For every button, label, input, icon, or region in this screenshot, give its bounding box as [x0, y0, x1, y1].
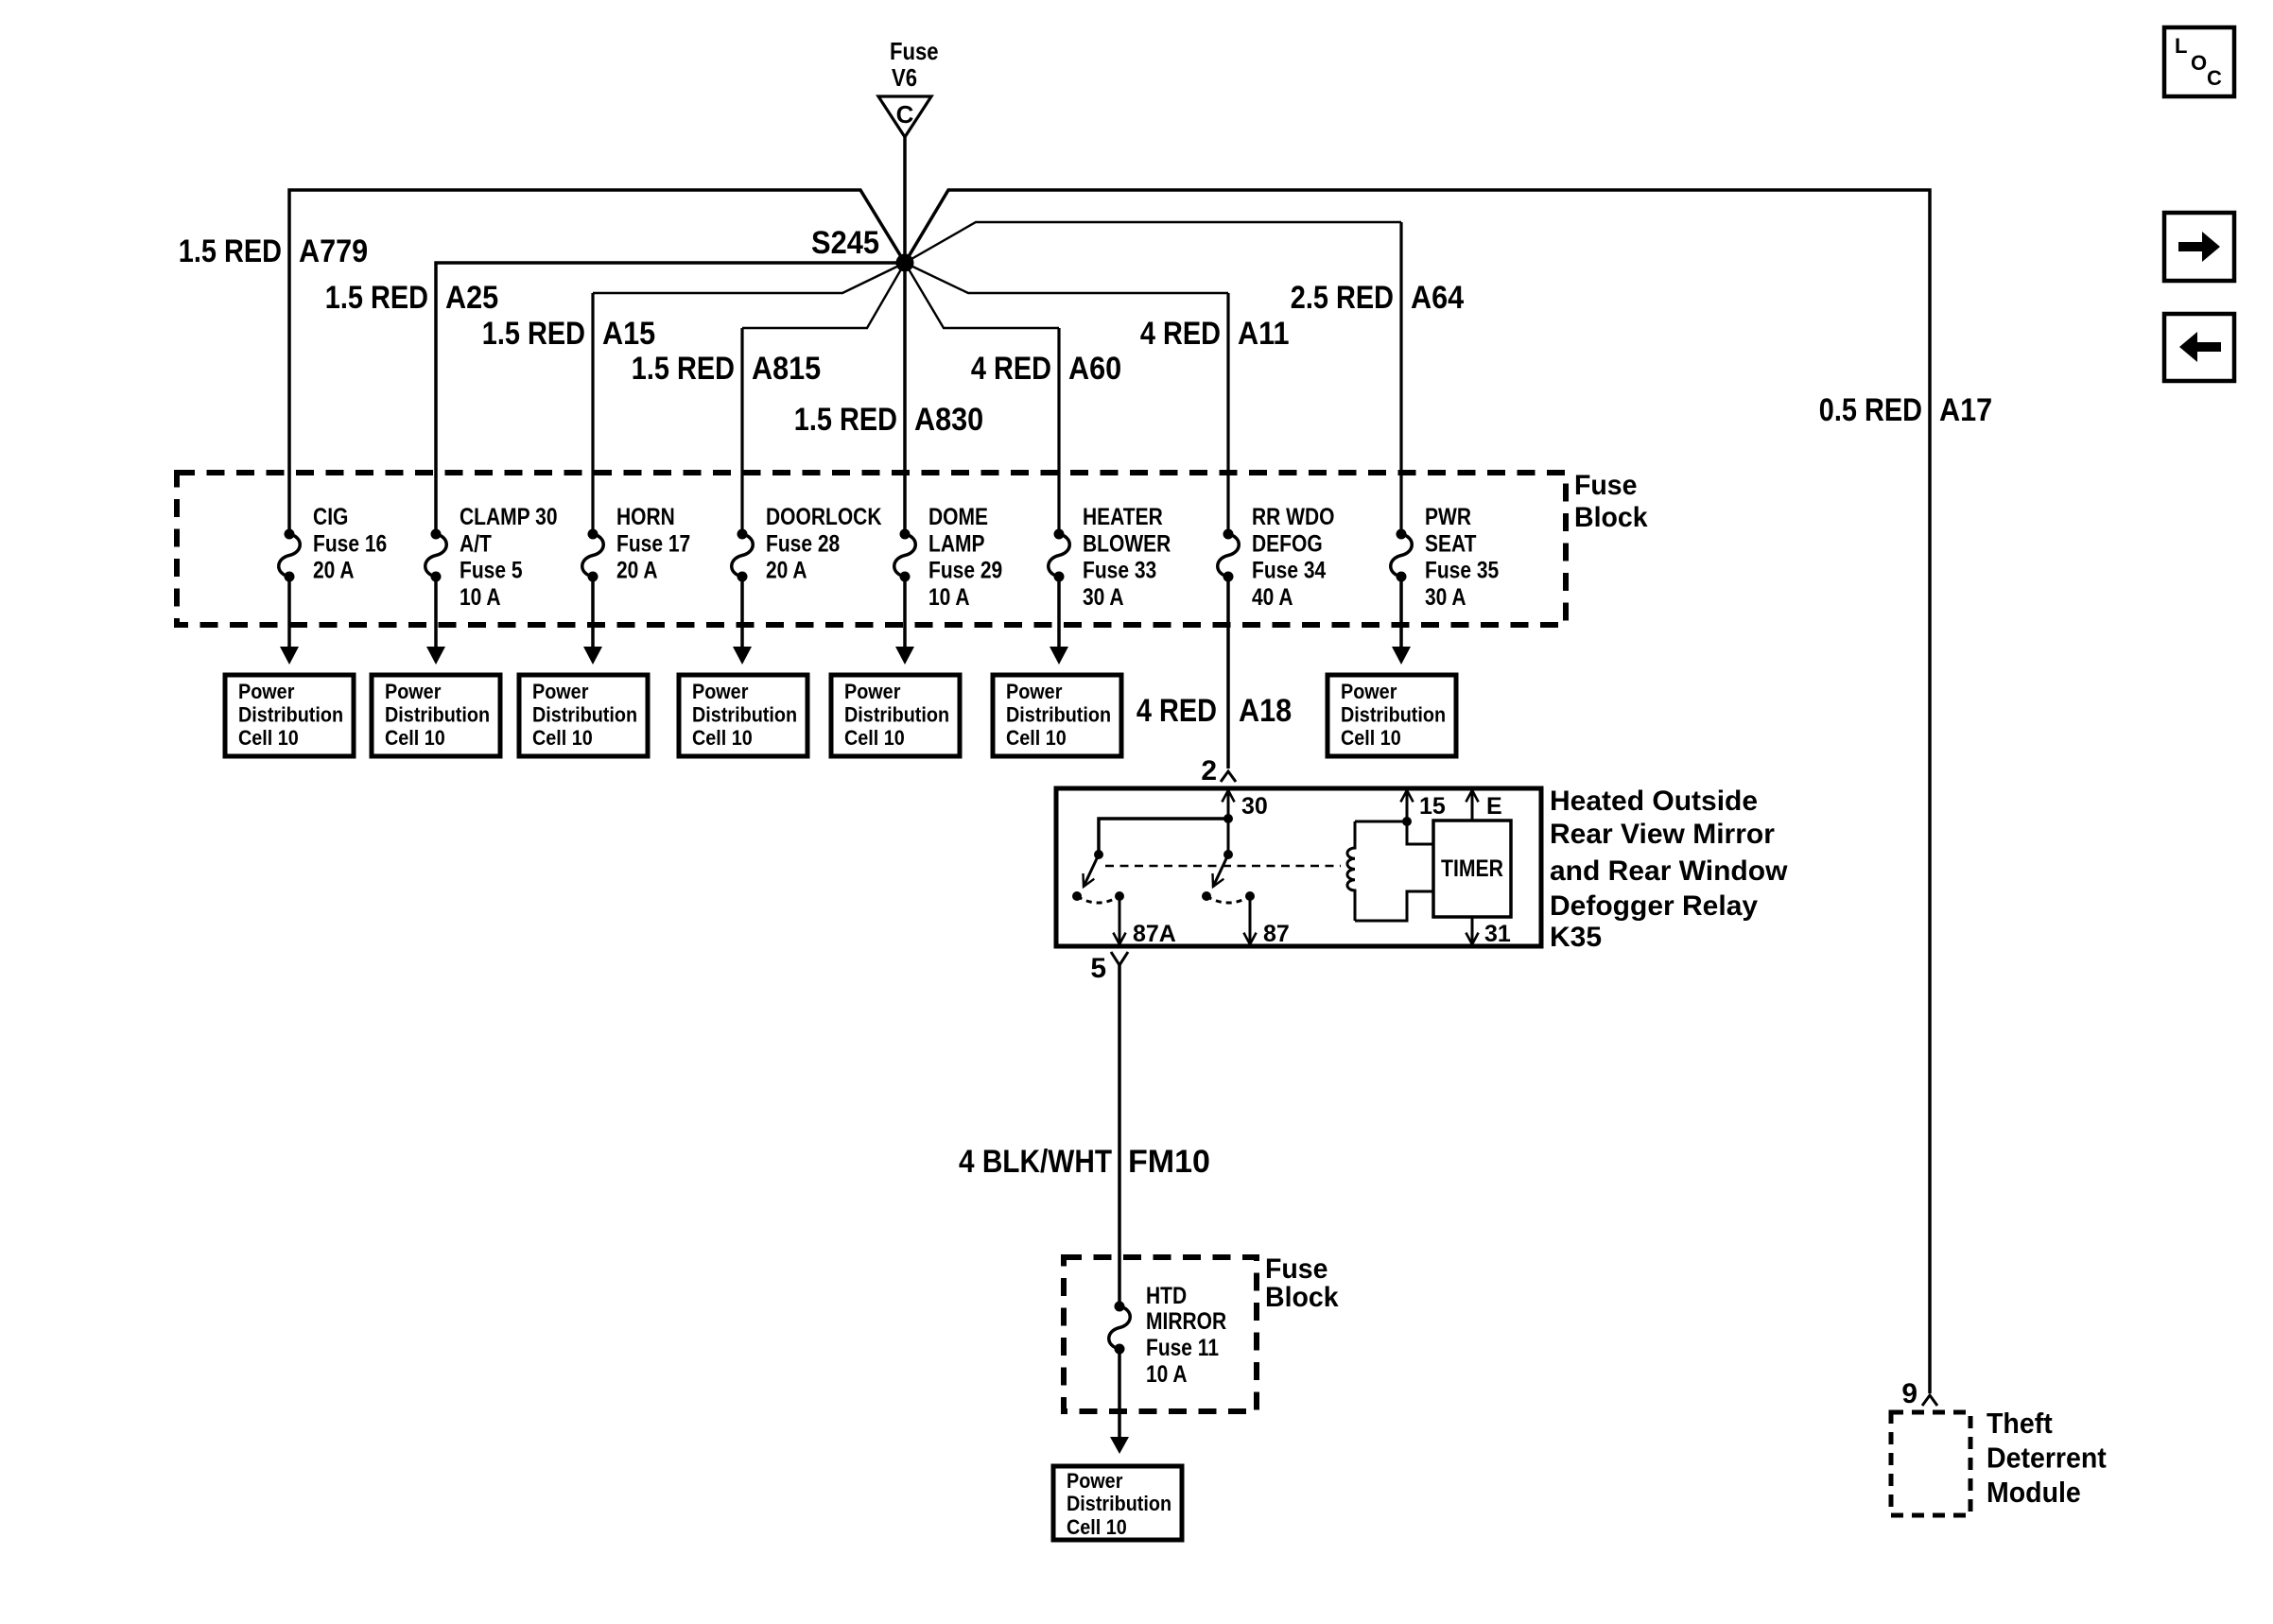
svg-text:CIG: CIG [313, 504, 348, 530]
fuse HTD MIRROR Fuse 11 10 A [1109, 1283, 1226, 1388]
power feed label Fuse V6 [890, 37, 939, 92]
svg-text:Power: Power [1341, 680, 1397, 703]
connector C (triangle to Fuse V6) [878, 96, 931, 137]
wire 1.5 RED A815 (S245 to DOORLOCK fuse) [742, 263, 905, 534]
svg-text:CLAMP 30: CLAMP 30 [460, 504, 558, 530]
wire 2.5 RED A64 (S245 to PWR SEAT fuse) [905, 222, 1401, 534]
relay left switch contacts and dashed throw [1072, 891, 1124, 903]
svg-text:Power: Power [532, 680, 589, 703]
relay coil [1347, 821, 1407, 921]
svg-text:Fuse: Fuse [1265, 1253, 1328, 1285]
relay TIMER box [1433, 821, 1511, 917]
Power Distribution Cell 10 box (column x=461) [372, 675, 500, 756]
svg-text:A64: A64 [1411, 280, 1464, 316]
fuse DOORLOCK Fuse 28 20 A [732, 504, 882, 584]
wire fuse column x=785 to Power Distribution arrow [733, 577, 752, 665]
svg-text:Module: Module [1987, 1476, 2081, 1509]
svg-text:Power: Power [692, 680, 749, 703]
svg-text:E: E [1486, 793, 1502, 820]
splice S245 node [896, 254, 914, 272]
previous page arrow icon [2164, 314, 2234, 381]
svg-text:1.5 RED: 1.5 RED [179, 233, 282, 269]
svg-text:Block: Block [1574, 502, 1648, 533]
LOC page icon [2164, 27, 2234, 96]
svg-text:87: 87 [1263, 921, 1290, 947]
svg-text:A11: A11 [1238, 316, 1290, 352]
svg-text:Distribution: Distribution [1006, 703, 1111, 727]
svg-text:Fuse 35: Fuse 35 [1425, 558, 1499, 584]
relay timer to coil bottom wire [1355, 891, 1433, 921]
svg-text:2: 2 [1201, 755, 1217, 786]
svg-text:30 A: 30 A [1083, 584, 1124, 611]
svg-text:SEAT: SEAT [1425, 530, 1476, 557]
svg-text:MIRROR: MIRROR [1146, 1308, 1226, 1335]
relay pin 87 arrow and wire [1243, 896, 1289, 947]
svg-text:Cell 10: Cell 10 [532, 726, 593, 750]
wire label 1.5 RED A25 [325, 280, 498, 316]
svg-text:20 A: 20 A [766, 558, 807, 584]
Power Distribution Cell 10 box (column x=627) [519, 675, 648, 756]
relay middle switch contacts and dashed throw [1202, 891, 1255, 903]
wire 1.5 RED A779 (S245 to CIG fuse) [289, 190, 905, 534]
fuse PWR SEAT Fuse 35 30 A [1391, 504, 1500, 611]
svg-text:15: 15 [1419, 793, 1446, 820]
wire fuse column x=306 to Power Distribution arrow [280, 577, 299, 665]
svg-text:31: 31 [1484, 921, 1511, 947]
wire label 2.5 RED A64 [1291, 280, 1464, 316]
fuse block 2 (dashed boundary) [1064, 1257, 1257, 1411]
svg-text:Cell 10: Cell 10 [385, 726, 445, 750]
fuse HEATER BLOWER Fuse 33 30 A [1049, 504, 1171, 611]
svg-text:A18: A18 [1239, 693, 1292, 729]
Theft Deterrent Module label [1987, 1407, 2107, 1509]
svg-text:Distribution: Distribution [385, 703, 490, 727]
svg-text:Distribution: Distribution [238, 703, 343, 727]
svg-text:10 A: 10 A [928, 584, 970, 611]
relay coil junction node [1402, 817, 1412, 826]
relay K35 name label [1550, 786, 1788, 953]
svg-text:4 RED: 4 RED [1140, 316, 1221, 352]
fuse block (dashed boundary) [177, 473, 1566, 625]
svg-text:9: 9 [1901, 1378, 1917, 1409]
svg-text:Fuse 34: Fuse 34 [1252, 558, 1326, 584]
svg-text:Cell 10: Cell 10 [844, 726, 905, 750]
svg-text:DOORLOCK: DOORLOCK [766, 504, 882, 530]
svg-text:Fuse: Fuse [890, 37, 939, 65]
svg-text:Defogger Relay: Defogger Relay [1550, 890, 1758, 922]
svg-text:Power: Power [385, 680, 442, 703]
wire label 4 RED A60 [971, 351, 1121, 387]
svg-text:Cell 10: Cell 10 [238, 726, 299, 750]
Power Distribution Cell 10 box (column x=1482) [1327, 675, 1456, 756]
svg-text:1.5 RED: 1.5 RED [794, 402, 897, 438]
relay pin 30 arrow and wire [1222, 790, 1267, 855]
svg-text:DEFOG: DEFOG [1252, 530, 1323, 557]
svg-text:20 A: 20 A [616, 558, 658, 584]
wire fuse column x=627 to Power Distribution arrow [583, 577, 602, 665]
wire fuse column x=461 to Power Distribution arrow [426, 577, 445, 665]
svg-text:PWR: PWR [1425, 504, 1471, 530]
svg-text:FM10: FM10 [1128, 1144, 1210, 1180]
svg-text:Power: Power [1067, 1469, 1123, 1493]
svg-text:2.5 RED: 2.5 RED [1291, 280, 1394, 316]
svg-text:Distribution: Distribution [1067, 1492, 1171, 1515]
wire label 4 BLK/WHT FM10 [959, 1144, 1210, 1180]
svg-text:20 A: 20 A [313, 558, 355, 584]
svg-text:A25: A25 [445, 280, 498, 316]
relay pin 31 arrow and wire [1466, 917, 1511, 947]
svg-text:Fuse 11: Fuse 11 [1146, 1335, 1219, 1361]
wire 1.5 RED A15 (S245 to HORN fuse) [593, 263, 905, 534]
wire label 1.5 RED A830 [794, 402, 983, 438]
connector pin 9 (theft deterrent module) [1901, 1378, 1937, 1409]
svg-text:RR WDO: RR WDO [1252, 504, 1335, 530]
fuse RR WDO DEFOG Fuse 34 40 A [1218, 504, 1335, 611]
Power Distribution Cell 10 box (column x=785) [679, 675, 807, 756]
svg-text:L: L [2175, 34, 2187, 58]
svg-text:Heated Outside: Heated Outside [1550, 786, 1758, 817]
wire from connector C to splice S245 [903, 137, 907, 263]
fuse block 2 label [1265, 1253, 1339, 1313]
svg-text:A17: A17 [1939, 392, 1992, 428]
svg-text:C: C [2207, 66, 2222, 90]
wire 4 RED A11 (S245 to RR WDO DEFOG fuse) [905, 263, 1228, 534]
svg-text:A15: A15 [602, 316, 655, 352]
svg-text:5: 5 [1090, 953, 1106, 984]
fuse DOME LAMP Fuse 29 10 A [894, 504, 1002, 611]
svg-text:Fuse: Fuse [1574, 470, 1638, 501]
svg-text:Fuse 16: Fuse 16 [313, 530, 387, 557]
wire label 4 RED A11 [1140, 316, 1290, 352]
svg-text:HORN: HORN [616, 504, 675, 530]
svg-text:87A: 87A [1133, 921, 1176, 947]
svg-text:Cell 10: Cell 10 [692, 726, 753, 750]
wire 4 RED A18 (RR WDO fuse to relay pin 30) [1226, 577, 1230, 769]
wire fuse column x=1120 to Power Distribution arrow [1050, 577, 1068, 665]
svg-text:Power: Power [844, 680, 901, 703]
next page arrow icon [2164, 213, 2234, 281]
relay pin E arrow and wire [1466, 790, 1501, 821]
svg-text:TIMER: TIMER [1441, 855, 1503, 882]
svg-text:Rear View Mirror: Rear View Mirror [1550, 819, 1775, 850]
svg-text:0.5 RED: 0.5 RED [1819, 392, 1922, 428]
relay pin 87A arrow and wire [1113, 896, 1175, 947]
svg-text:A/T: A/T [460, 530, 492, 557]
svg-text:10 A: 10 A [460, 584, 501, 611]
wire label 1.5 RED A779 [179, 233, 368, 269]
Power Distribution Cell 10 box (column x=1120) [993, 675, 1121, 756]
svg-text:1.5 RED: 1.5 RED [632, 351, 735, 387]
svg-text:Fuse 33: Fuse 33 [1083, 558, 1156, 584]
svg-text:Distribution: Distribution [1341, 703, 1446, 727]
svg-text:BLOWER: BLOWER [1083, 530, 1171, 557]
wire 4 BLK/WHT FM10 (relay 87A to fuse block) [1118, 963, 1121, 1306]
wire label 1.5 RED A815 [632, 351, 821, 387]
wire label 4 RED A18 [1136, 693, 1292, 729]
svg-text:Distribution: Distribution [844, 703, 949, 727]
svg-text:A60: A60 [1068, 351, 1121, 387]
svg-text:Power: Power [238, 680, 295, 703]
svg-text:A779: A779 [299, 233, 368, 269]
wire label 1.5 RED A15 [482, 316, 655, 352]
svg-text:A815: A815 [752, 351, 821, 387]
svg-text:Cell 10: Cell 10 [1341, 726, 1401, 750]
svg-text:4 RED: 4 RED [1136, 693, 1217, 729]
svg-text:Fuse 29: Fuse 29 [928, 558, 1002, 584]
svg-text:HTD: HTD [1146, 1283, 1187, 1309]
connector pin 5 (out of relay) [1090, 952, 1128, 984]
svg-text:Distribution: Distribution [692, 703, 797, 727]
wire 0.5 RED A17 (S245 to theft deterrent module) [905, 190, 1930, 1393]
svg-text:Distribution: Distribution [532, 703, 637, 727]
svg-text:Theft: Theft [1987, 1407, 2053, 1440]
svg-text:LAMP: LAMP [928, 530, 985, 557]
svg-text:Cell 10: Cell 10 [1006, 726, 1067, 750]
connector pin 2 (into relay) [1201, 755, 1236, 786]
svg-text:1.5 RED: 1.5 RED [325, 280, 428, 316]
svg-text:4 RED: 4 RED [971, 351, 1051, 387]
splice S245 label [811, 225, 879, 261]
svg-text:1.5 RED: 1.5 RED [482, 316, 585, 352]
relay internal junction node [1223, 814, 1233, 823]
svg-text:Fuse 28: Fuse 28 [766, 530, 840, 557]
svg-text:30 A: 30 A [1425, 584, 1466, 611]
svg-text:O: O [2191, 51, 2207, 75]
relay pin 15 arrow and wire to timer [1400, 790, 1446, 844]
svg-text:40 A: 40 A [1252, 584, 1293, 611]
fuse CIG Fuse 16 20 A [279, 504, 387, 584]
svg-text:10 A: 10 A [1146, 1361, 1188, 1388]
Power Distribution Cell 10 box (column x=306) [225, 675, 354, 756]
wire 4 RED A60 (S245 to HEATER BLOWER fuse) [905, 263, 1059, 534]
svg-text:Cell 10: Cell 10 [1067, 1515, 1127, 1539]
wire label 0.5 RED A17 [1819, 392, 1992, 428]
relay middle switch (movable arm) [1213, 850, 1234, 887]
Power Distribution Cell 10 box (bottom) [1053, 1466, 1182, 1540]
svg-text:S245: S245 [811, 225, 879, 261]
svg-text:Block: Block [1265, 1282, 1339, 1313]
svg-text:and Rear Window: and Rear Window [1550, 855, 1788, 887]
wire fuse column x=1482 to Power Distribution arrow [1392, 577, 1411, 665]
svg-text:K35: K35 [1550, 922, 1602, 953]
wire 1.5 RED A830 (S245 to DOME LAMP fuse) [903, 263, 907, 534]
relay dashed actuation line (switch arms to coil) [1105, 865, 1341, 868]
Theft Deterrent Module (dashed box) [1891, 1412, 1970, 1515]
relay left switch (common 30, movable arm) [1084, 850, 1104, 887]
Power Distribution Cell 10 box (column x=957) [831, 675, 960, 756]
fuse CLAMP 30 A/T Fuse 5 10 A [425, 504, 558, 611]
svg-text:30: 30 [1241, 793, 1268, 820]
fuse HORN Fuse 17 20 A [582, 504, 690, 584]
wire fuse column x=957 to Power Distribution arrow [895, 577, 914, 665]
relay K35 box [1056, 788, 1541, 946]
svg-text:HEATER: HEATER [1083, 504, 1163, 530]
svg-text:DOME: DOME [928, 504, 988, 530]
svg-text:V6: V6 [892, 63, 917, 92]
svg-text:Fuse 5: Fuse 5 [460, 558, 523, 584]
svg-text:C: C [896, 100, 914, 129]
svg-text:Power: Power [1006, 680, 1063, 703]
wire HTD MIRROR fuse to Power Distribution arrow [1110, 1349, 1129, 1454]
svg-text:Fuse 17: Fuse 17 [616, 530, 690, 557]
svg-text:Deterrent: Deterrent [1987, 1442, 2107, 1475]
wire 1.5 RED A25 (S245 to CLAMP fuse) [436, 263, 905, 534]
svg-text:A830: A830 [914, 402, 983, 438]
svg-text:4 BLK/WHT: 4 BLK/WHT [959, 1144, 1112, 1180]
fuse block label [1574, 470, 1648, 533]
relay internal wire to left switch [1099, 819, 1228, 855]
